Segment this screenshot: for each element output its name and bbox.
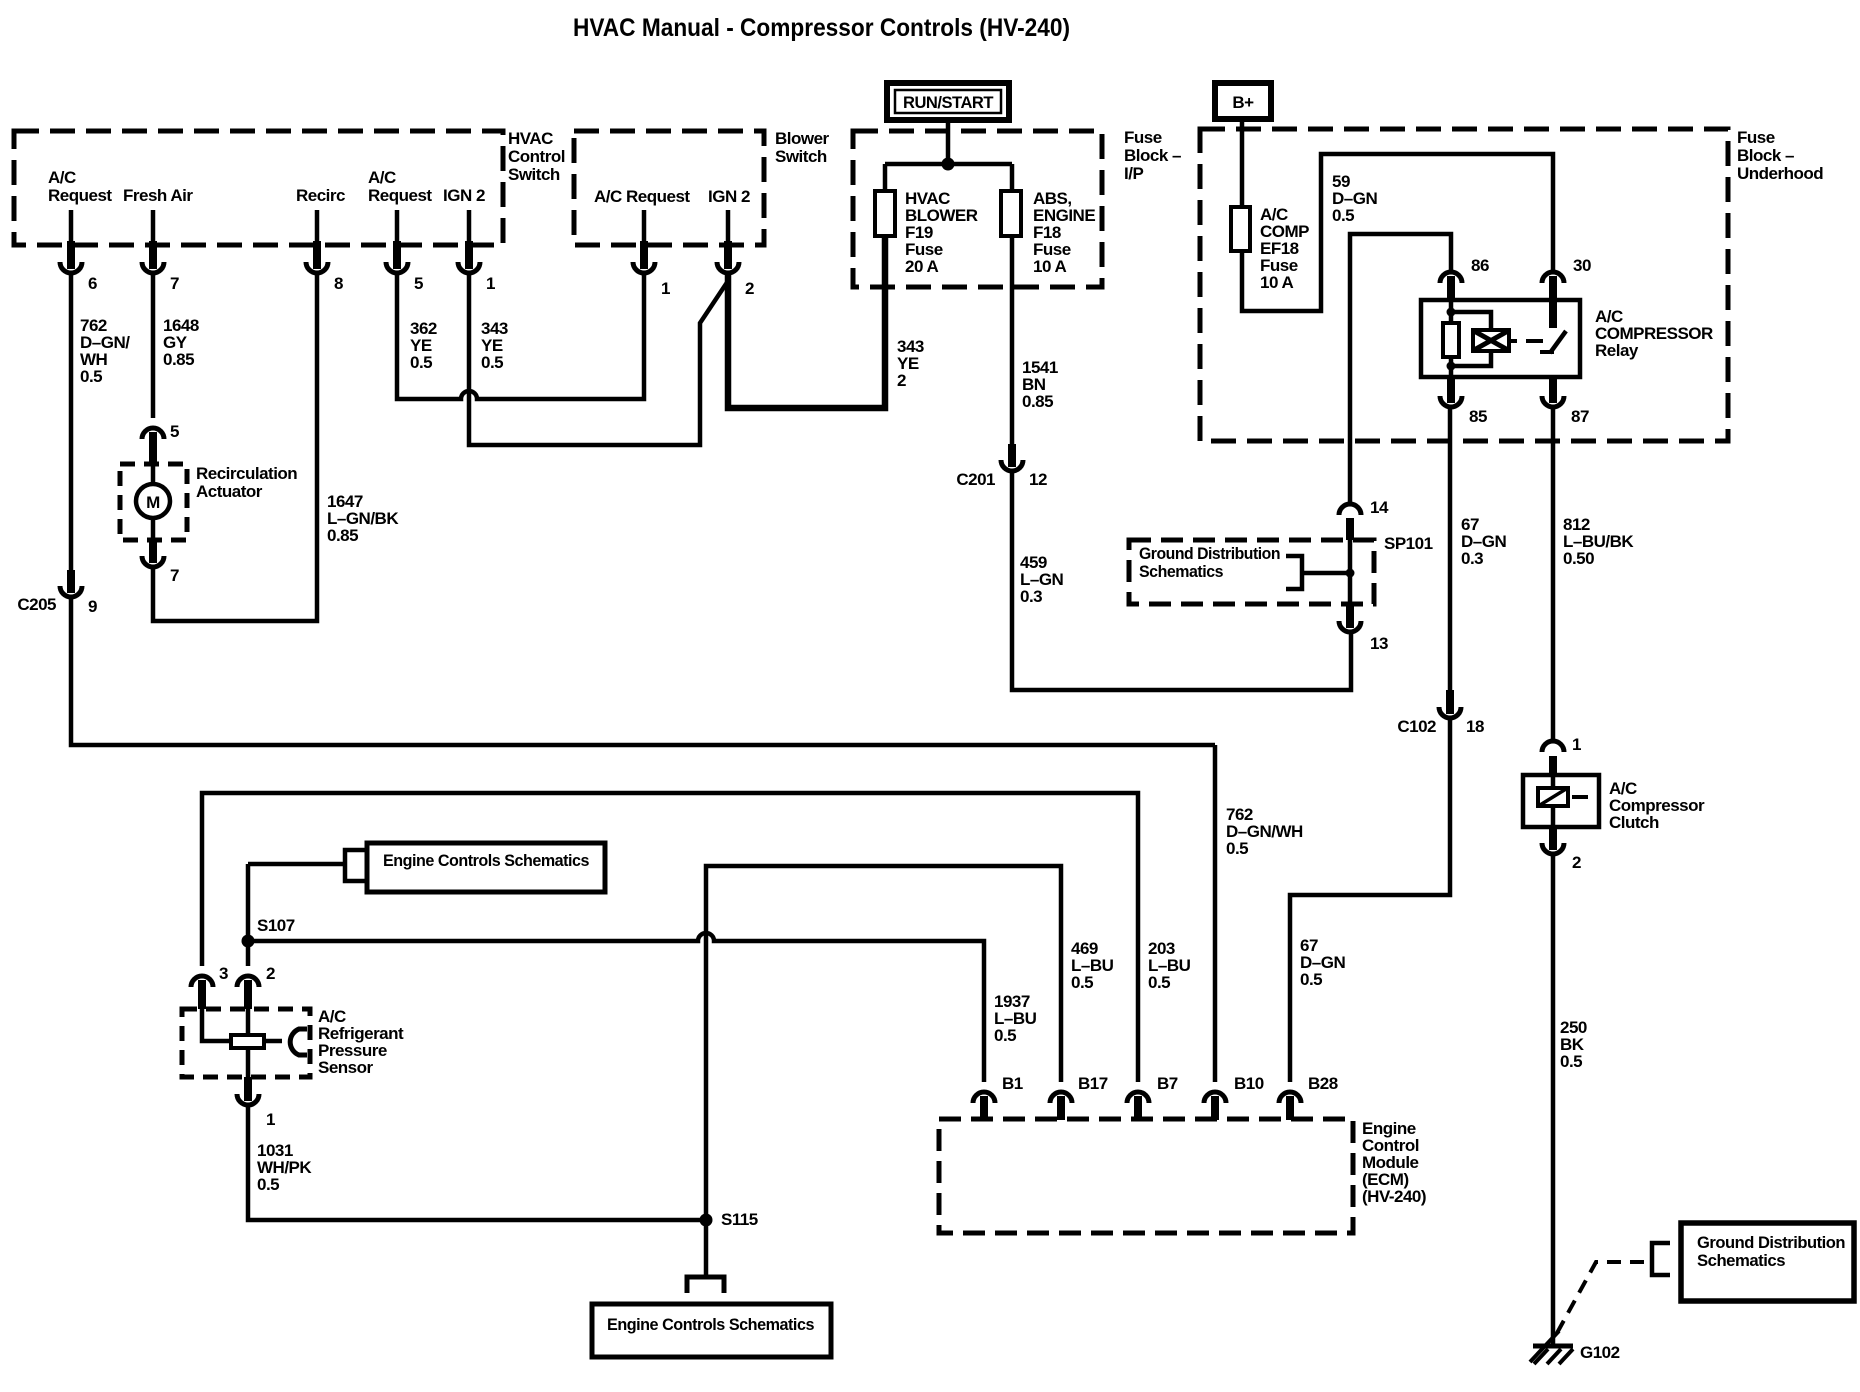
svg-text:10 A: 10 A: [1260, 273, 1294, 292]
svg-text:Sensor: Sensor: [318, 1058, 374, 1077]
svg-text:0.5: 0.5: [481, 353, 503, 372]
svg-text:2: 2: [745, 279, 754, 298]
svg-text:M: M: [146, 493, 160, 512]
svg-text:IGN 2: IGN 2: [443, 186, 485, 205]
svg-text:0.5: 0.5: [1148, 973, 1170, 992]
svg-text:C201: C201: [956, 470, 995, 489]
svg-text:IGN 2: IGN 2: [708, 187, 750, 206]
svg-text:6: 6: [88, 274, 97, 293]
svg-text:A/C: A/C: [368, 168, 396, 187]
svg-text:Blower: Blower: [775, 129, 830, 148]
svg-text:C205: C205: [17, 595, 56, 614]
svg-text:14: 14: [1370, 498, 1389, 517]
svg-text:0.50: 0.50: [1563, 549, 1594, 568]
svg-text:Recirc: Recirc: [296, 186, 345, 205]
svg-text:13: 13: [1370, 634, 1388, 653]
svg-text:0.5: 0.5: [257, 1175, 279, 1194]
svg-text:7: 7: [170, 274, 179, 293]
svg-text:5: 5: [170, 422, 179, 441]
svg-text:2: 2: [897, 371, 906, 390]
svg-text:S107: S107: [257, 916, 295, 935]
svg-text:Fuse: Fuse: [1124, 128, 1162, 147]
svg-text:87: 87: [1571, 407, 1589, 426]
svg-text:0.5: 0.5: [1071, 973, 1093, 992]
svg-text:Engine Controls Schematics: Engine Controls Schematics: [383, 851, 589, 870]
svg-text:Clutch: Clutch: [1609, 813, 1659, 832]
svg-text:9: 9: [88, 597, 97, 616]
svg-text:18: 18: [1466, 717, 1484, 736]
svg-text:B1: B1: [1002, 1074, 1023, 1093]
svg-text:Relay: Relay: [1595, 341, 1639, 360]
svg-text:0.5: 0.5: [1560, 1052, 1582, 1071]
svg-text:B+: B+: [1232, 93, 1254, 112]
svg-text:0.5: 0.5: [1300, 970, 1322, 989]
svg-text:Switch: Switch: [775, 147, 827, 166]
svg-text:S115: S115: [721, 1210, 758, 1229]
svg-text:B17: B17: [1078, 1074, 1108, 1093]
svg-text:Schematics: Schematics: [1139, 562, 1223, 581]
svg-text:1: 1: [661, 279, 670, 298]
svg-text:Actuator: Actuator: [196, 482, 263, 501]
svg-text:Block –: Block –: [1737, 146, 1794, 165]
svg-text:10 A: 10 A: [1033, 257, 1067, 276]
svg-text:0.3: 0.3: [1020, 587, 1042, 606]
svg-text:1: 1: [266, 1110, 275, 1129]
svg-text:HVAC Manual - Compressor Contr: HVAC Manual - Compressor Controls (HV-24…: [573, 14, 1070, 42]
svg-text:Ground Distribution: Ground Distribution: [1139, 544, 1280, 563]
svg-text:HVAC: HVAC: [508, 129, 553, 148]
svg-text:Switch: Switch: [508, 165, 560, 184]
svg-text:Request: Request: [368, 186, 432, 205]
svg-text:1: 1: [486, 274, 495, 293]
svg-text:A/C: A/C: [48, 168, 76, 187]
svg-text:0.5: 0.5: [994, 1026, 1016, 1045]
svg-text:2: 2: [266, 964, 275, 983]
svg-text:12: 12: [1029, 470, 1047, 489]
svg-text:2: 2: [1572, 853, 1581, 872]
svg-text:86: 86: [1471, 256, 1489, 275]
svg-text:30: 30: [1573, 256, 1591, 275]
svg-text:I/P: I/P: [1124, 164, 1143, 183]
svg-text:0.5: 0.5: [410, 353, 432, 372]
svg-text:RUN/START: RUN/START: [903, 93, 994, 112]
svg-text:G102: G102: [1580, 1343, 1620, 1362]
svg-text:Control: Control: [508, 147, 565, 166]
svg-text:A/C Request: A/C Request: [594, 187, 690, 206]
svg-text:Fresh Air: Fresh Air: [123, 186, 193, 205]
svg-text:0.5: 0.5: [1226, 839, 1248, 858]
svg-text:B10: B10: [1234, 1074, 1264, 1093]
svg-text:B7: B7: [1157, 1074, 1178, 1093]
svg-text:Underhood: Underhood: [1737, 164, 1823, 183]
svg-text:Request: Request: [48, 186, 112, 205]
svg-text:0.85: 0.85: [163, 350, 194, 369]
svg-text:0.3: 0.3: [1461, 549, 1483, 568]
svg-text:85: 85: [1469, 407, 1487, 426]
svg-text:0.85: 0.85: [1022, 392, 1053, 411]
svg-text:C102: C102: [1397, 717, 1436, 736]
svg-text:20 A: 20 A: [905, 257, 939, 276]
svg-text:5: 5: [414, 274, 423, 293]
svg-text:Ground Distribution: Ground Distribution: [1697, 1233, 1845, 1252]
svg-text:7: 7: [170, 566, 179, 585]
svg-text:B28: B28: [1308, 1074, 1338, 1093]
svg-text:Schematics: Schematics: [1697, 1251, 1785, 1270]
svg-text:1: 1: [1572, 735, 1581, 754]
svg-text:SP101: SP101: [1384, 534, 1433, 553]
svg-text:Block –: Block –: [1124, 146, 1181, 165]
svg-text:3: 3: [219, 964, 228, 983]
svg-text:0.5: 0.5: [80, 367, 102, 386]
svg-text:Fuse: Fuse: [1737, 128, 1775, 147]
svg-text:Recirculation: Recirculation: [196, 464, 297, 483]
svg-text:0.85: 0.85: [327, 526, 358, 545]
svg-text:Engine Controls Schematics: Engine Controls Schematics: [607, 1315, 814, 1334]
svg-text:0.5: 0.5: [1332, 206, 1354, 225]
svg-text:8: 8: [334, 274, 343, 293]
svg-text:(HV-240): (HV-240): [1362, 1187, 1426, 1206]
